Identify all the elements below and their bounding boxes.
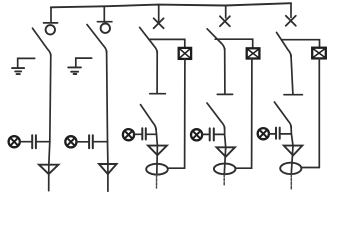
fixed contact branch3 xyxy=(150,93,166,95)
breaker cross Q4 xyxy=(220,16,230,26)
cable termination branch4 xyxy=(217,147,235,157)
wire C2 to feeder2 xyxy=(94,141,108,143)
switch blade Q3a xyxy=(140,27,158,53)
feeder wire branch3 upper xyxy=(156,52,158,93)
busbar xyxy=(51,3,291,7)
breaker cross Q5 xyxy=(286,16,296,26)
ground branch1 xyxy=(12,58,35,74)
wire termination4 to CT4 xyxy=(224,147,225,174)
wire termination3 to CT3 xyxy=(156,146,159,175)
fixed contact branch4 xyxy=(217,93,232,95)
feeder wire branch4 lower xyxy=(225,128,226,148)
capacitor C5 xyxy=(276,128,280,139)
wire tap to fuse F4 xyxy=(215,39,253,48)
current transformer T3 xyxy=(146,164,168,175)
wire lamp4 to C4 xyxy=(202,133,209,135)
feeder wire branch4 upper xyxy=(224,49,226,94)
fuse F5 xyxy=(312,48,326,59)
tail wire branch5 xyxy=(290,174,292,189)
fixed contact branch1 xyxy=(44,22,58,24)
current transformer T4 xyxy=(214,164,236,175)
capacitor C3 xyxy=(142,128,146,139)
capacitor C1 xyxy=(32,135,36,148)
wire branch3 stub xyxy=(158,5,160,22)
lamp H1 xyxy=(9,136,20,147)
wire lamp1 to C1 xyxy=(20,141,31,143)
tail wire branch2 xyxy=(107,164,109,191)
lamp H5 xyxy=(258,128,269,139)
feeder wire branch3 lower xyxy=(156,128,158,146)
wire tap to fuse F5 xyxy=(282,40,320,48)
capacitor C2 xyxy=(89,135,93,148)
lamp H2 xyxy=(65,136,76,147)
wire lamp2 to C2 xyxy=(77,141,89,143)
feeder wire branch5 upper xyxy=(291,55,293,94)
wire C4 to feeder4 xyxy=(215,133,225,135)
wire tap to fuse F3 xyxy=(149,39,185,48)
wire C1 to feeder1 xyxy=(37,141,50,143)
tail wire branch4 xyxy=(223,174,225,186)
tail wire branch3 xyxy=(156,175,158,188)
bushing insulator branch2 xyxy=(101,24,110,33)
wire fuse F4 leg xyxy=(235,59,252,169)
feeder wire branch1 xyxy=(49,55,51,165)
switch blade Q4b xyxy=(207,103,225,129)
wire C3 to feeder3 xyxy=(147,133,157,135)
cable termination branch3 xyxy=(148,146,167,156)
lamp H4 xyxy=(191,129,202,140)
fixed contact branch5 xyxy=(284,94,302,96)
breaker cross Q3 xyxy=(154,18,164,28)
wire C5 to feeder5 xyxy=(281,133,292,135)
wire branch1 stub xyxy=(50,7,52,22)
switch blade Q2 xyxy=(87,25,107,53)
cable termination branch1 xyxy=(39,165,58,174)
current transformer T5 xyxy=(280,163,301,174)
bushing insulator branch1 xyxy=(46,25,55,34)
switch blade Q4a xyxy=(207,29,225,50)
switch blade Q3b xyxy=(141,105,156,130)
fixed contact branch2 xyxy=(98,21,112,23)
wire branch5 stub xyxy=(290,3,292,17)
capacitor C4 xyxy=(210,128,214,140)
switch blade Q1 xyxy=(33,28,51,56)
tail wire branch1 xyxy=(48,165,50,191)
wire termination5 to CT5 xyxy=(291,146,293,175)
ground branch2 xyxy=(68,58,92,74)
lamp H3 xyxy=(123,129,134,140)
feeder wire branch5 lower xyxy=(291,126,293,146)
fuse F3 xyxy=(179,48,191,59)
fuse F4 xyxy=(247,48,260,58)
feeder wire branch2 xyxy=(107,51,108,164)
wire branch4 stub xyxy=(225,6,227,18)
cable termination branch2 xyxy=(99,164,117,174)
wire fuse F3 leg xyxy=(168,59,185,168)
wire lamp3 to C3 xyxy=(134,133,141,135)
wire lamp5 to C5 xyxy=(269,133,275,135)
switch blade Q5a xyxy=(277,32,292,56)
cable termination branch5 xyxy=(284,146,303,156)
wire fuse F5 leg xyxy=(301,58,319,167)
switch blade Q5b xyxy=(274,102,291,127)
wire branch2 stub xyxy=(103,6,105,21)
